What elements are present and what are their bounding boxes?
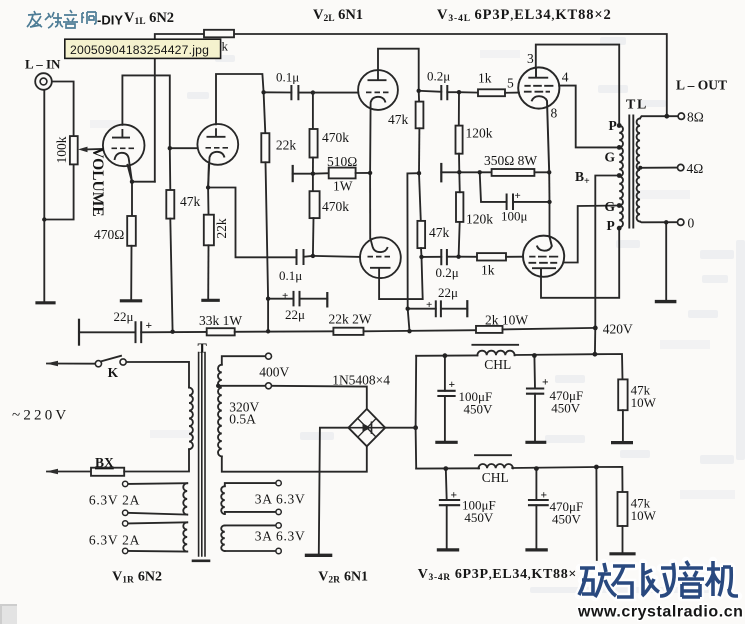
wiper arrow head bbox=[78, 147, 88, 153]
svg-text:CHL: CHL bbox=[482, 470, 509, 485]
svg-text:-DIY: -DIY bbox=[97, 13, 123, 28]
svg-text:0.1μ: 0.1μ bbox=[276, 70, 299, 85]
ground 470ohm bbox=[121, 299, 140, 302]
wire pot bottom to ground line bbox=[44, 164, 73, 219]
wire 0.1u to grid node bbox=[298, 92, 313, 94]
junction node (536.4,468.6) bbox=[534, 466, 539, 471]
wire 22k down to rail bbox=[266, 162, 269, 331]
capacitor 470uF lower plates bbox=[529, 500, 548, 505]
resistor 47k lower driver load bbox=[417, 221, 425, 248]
junction node (263.6,92.3) bbox=[261, 90, 265, 94]
stub bar 510 bbox=[292, 166, 294, 181]
svg-text:+: + bbox=[515, 190, 521, 202]
wire 420V down to filter bbox=[594, 328, 596, 354]
svg-text:450V: 450V bbox=[464, 402, 494, 417]
stub bar bias line bbox=[440, 164, 442, 181]
svg-text:47k: 47k bbox=[388, 112, 409, 127]
svg-text:www.crystalradio.cn: www.crystalradio.cn bbox=[577, 604, 743, 621]
junction node (534.4,355.5) bbox=[532, 353, 537, 358]
terminal 8ohm bbox=[678, 113, 684, 119]
svg-text:1N5408×4: 1N5408×4 bbox=[332, 373, 390, 388]
filament winding R1 bbox=[221, 486, 225, 514]
wire V2L grid chain vertical bbox=[312, 93, 314, 129]
scan artifact blue ghost patches bbox=[187, 37, 745, 593]
svg-text:470k: 470k bbox=[322, 130, 349, 145]
svg-text:0.2μ: 0.2μ bbox=[436, 265, 459, 280]
wire wiper to V1L grid bbox=[87, 148, 104, 151]
svg-text:+: + bbox=[449, 379, 456, 391]
wire 100u to cathode line bbox=[513, 201, 550, 203]
ground bridge minus bbox=[307, 554, 331, 557]
wire to 0.1u cap bbox=[264, 91, 292, 93]
svg-text:3: 3 bbox=[527, 51, 534, 66]
wire 120k upper to bias line bbox=[458, 154, 460, 173]
wire bridge minus to ground bbox=[319, 428, 349, 554]
stub bar rail left bbox=[78, 320, 80, 345]
svg-text:420V: 420V bbox=[603, 322, 633, 337]
svg-text:450V: 450V bbox=[552, 512, 582, 527]
wire cathode to feedback bbox=[132, 181, 155, 183]
filament R2 leads bbox=[225, 525, 276, 551]
svg-text:20050904183254427.jpg: 20050904183254427.jpg bbox=[70, 43, 209, 57]
core bottom bar bbox=[193, 559, 209, 562]
junction node (619.2,147.4) bbox=[617, 145, 622, 150]
svg-text:470k: 470k bbox=[322, 199, 349, 214]
filament R1 leads bbox=[225, 483, 276, 514]
switch K contact left bbox=[95, 361, 101, 367]
terminal 0 bbox=[678, 219, 684, 225]
svg-text:6.3V 2A: 6.3V 2A bbox=[89, 493, 140, 508]
ground 0 terminal bbox=[657, 300, 675, 303]
wire V1L-1 grid node to V1L-2 grid bbox=[170, 147, 198, 149]
choke CHL lower core bbox=[475, 454, 511, 456]
tooltip box 20050904183254427.jpg bbox=[65, 39, 221, 58]
wire 120k lower to bias line bbox=[458, 172, 461, 192]
resistor 47k 10W lower bbox=[618, 492, 628, 526]
svg-text:V2R6N1: V2R6N1 bbox=[318, 570, 368, 586]
wire secondary top to 8ohm bbox=[640, 116, 678, 118]
svg-text:k: k bbox=[222, 39, 229, 54]
wire V3L screen to TL G upper bbox=[559, 86, 619, 148]
resistor 470k upper bbox=[310, 129, 318, 158]
svg-text:+: + bbox=[541, 490, 548, 502]
wire mains to switch K bbox=[47, 363, 95, 365]
junction dot 320V tap bbox=[216, 384, 220, 388]
junction node (459,92.2) bbox=[457, 90, 461, 94]
tube V4L output (inverted) bbox=[523, 236, 564, 277]
svg-text:L: L bbox=[637, 98, 646, 113]
wire V3L plate to TL P top bbox=[536, 45, 619, 126]
junction node (44.3,219.5) bbox=[42, 217, 46, 221]
wire 0.2u to 1k lower bbox=[447, 256, 477, 258]
junction node (421.5,256.9) bbox=[419, 255, 423, 259]
wire 470uF lower lead bbox=[535, 469, 537, 500]
svg-text:2k 10W: 2k 10W bbox=[485, 313, 528, 328]
wire 47k lower driver lead bbox=[419, 173, 421, 221]
tube V2L-2 triode (inverted) bbox=[360, 237, 401, 278]
choke CHL lower winding bbox=[479, 464, 513, 468]
wire 470uF upper to bar bbox=[534, 394, 536, 442]
wire 510 to cathode node bbox=[356, 172, 371, 174]
junction node (172.6,331.7) bbox=[170, 330, 174, 334]
svg-text:CHL: CHL bbox=[484, 357, 511, 372]
switch K contact right bbox=[120, 359, 126, 365]
TL secondary winding bbox=[637, 118, 640, 221]
svg-text:+: + bbox=[426, 299, 432, 311]
wire 47k to B+ rail bbox=[170, 219, 172, 332]
svg-text:470Ω: 470Ω bbox=[94, 227, 124, 242]
wire 47k upper to mid node bbox=[418, 128, 420, 173]
svg-text:22μ: 22μ bbox=[114, 309, 134, 324]
resistor 22k 2W bbox=[333, 328, 363, 335]
svg-text:L – IN: L – IN bbox=[25, 57, 61, 72]
svg-text:0.2μ: 0.2μ bbox=[427, 69, 450, 84]
junction node (459.3,172.2) bbox=[457, 170, 461, 174]
wire 2k10W to 420V node bbox=[503, 328, 596, 330]
arrow mains top bbox=[46, 361, 58, 367]
junction node (619.2,205.5) bbox=[617, 203, 622, 208]
ground 47k10W lower bbox=[611, 552, 634, 555]
svg-text:8: 8 bbox=[551, 106, 558, 121]
wire 120k upper lead bbox=[458, 92, 460, 125]
resistor 510ohm 1W bbox=[329, 168, 356, 179]
svg-text:T: T bbox=[198, 342, 208, 357]
capacitor 0.2u lower plates bbox=[441, 250, 447, 264]
svg-text:47k: 47k bbox=[180, 194, 201, 209]
svg-text:V1R6N2: V1R6N2 bbox=[112, 570, 162, 586]
resistor 1k lower bbox=[477, 253, 506, 260]
T primary winding bbox=[189, 388, 193, 450]
wire 22u to stub bbox=[300, 298, 328, 300]
switch K lever bbox=[101, 356, 122, 362]
junction node (619.2,125.5) bbox=[617, 123, 622, 128]
choke CHL upper winding bbox=[477, 351, 514, 356]
wire 100uF upper lead bbox=[444, 356, 446, 391]
wire feedback top (8ohm to V1L cathode) bbox=[155, 34, 667, 182]
svg-text:1W: 1W bbox=[333, 179, 353, 194]
TL primary winding bbox=[619, 126, 623, 228]
resistor feedback (in top wire) bbox=[204, 30, 234, 38]
wire V4L screen to TL G lower bbox=[564, 206, 619, 263]
junction node (409.5,331.2) bbox=[407, 329, 411, 333]
wire 47k top lead bbox=[169, 148, 172, 190]
wire cathode to lower 0.1u bbox=[208, 188, 296, 258]
wire 100uF lower to bar bbox=[446, 505, 448, 549]
svg-text:10W: 10W bbox=[631, 395, 657, 410]
svg-text:+: + bbox=[451, 490, 458, 502]
svg-text:VOLUME: VOLUME bbox=[89, 147, 106, 216]
choke CHL upper core bbox=[472, 344, 518, 346]
junction node (169.8,148.2) bbox=[168, 146, 172, 150]
svg-text:3A 6.3V: 3A 6.3V bbox=[255, 529, 306, 544]
junction node (268.1,298.7) bbox=[266, 297, 270, 301]
wire HT top to 400V terminal bbox=[222, 356, 266, 365]
capacitor 22u (V1L-2 decouple) plates bbox=[294, 292, 300, 306]
resistor 350ohm 8W bbox=[492, 169, 535, 176]
filament L1 leads bbox=[128, 483, 187, 514]
svg-text:22μ: 22μ bbox=[438, 285, 458, 300]
capacitor 100u plates bbox=[507, 195, 513, 210]
wire 320V terminal to bridge bbox=[271, 386, 366, 409]
resistor 47k upper driver load bbox=[416, 102, 424, 129]
wire 120k lower lead bbox=[459, 222, 460, 257]
wire V2L-2 cathode up bbox=[369, 173, 371, 238]
svg-text:47k: 47k bbox=[429, 225, 450, 240]
svg-text:P: P bbox=[607, 218, 615, 233]
resistor 22k (V1L-2 plate load) bbox=[261, 133, 269, 162]
filament L2 leads bbox=[128, 522, 187, 551]
capacitor 22u rail plates bbox=[136, 322, 142, 342]
wire 470uF lower to bar bbox=[535, 505, 537, 549]
wire driver B+ node chain bbox=[418, 91, 420, 102]
svg-text:22k: 22k bbox=[276, 138, 297, 153]
svg-text:4Ω: 4Ω bbox=[687, 161, 704, 176]
filament winding L2 bbox=[183, 522, 187, 551]
svg-text:G: G bbox=[605, 199, 616, 214]
ground input bbox=[37, 301, 54, 304]
wire V2L-2 plate down-over bbox=[379, 257, 423, 299]
junction node (619.2,175.5) bbox=[617, 173, 622, 178]
svg-text:22k 2W: 22k 2W bbox=[329, 312, 372, 327]
wire upper filter line bbox=[416, 354, 622, 379]
wire 0.1u lower to grid node bbox=[304, 255, 313, 258]
filament winding R2 bbox=[221, 525, 225, 551]
svg-text:G: G bbox=[605, 150, 616, 165]
wire 22u to 33k bbox=[141, 331, 207, 333]
capacitor 0.2u upper plates bbox=[441, 86, 447, 99]
wire V1L-1 plate up-over bbox=[122, 75, 169, 148]
watermark 矿石收音机 (CJK strokes with white halo) bbox=[579, 561, 738, 597]
junction node (619.2,228.2) bbox=[617, 226, 622, 231]
wire V4L plate to TL P bottom bbox=[541, 228, 619, 298]
tube V2L-1 triode bbox=[358, 70, 398, 173]
wire secondary mid tap to 4ohm bbox=[641, 167, 678, 169]
terminal 4ohm bbox=[678, 164, 684, 170]
junction node (132,181.7) bbox=[130, 180, 134, 184]
wire HT bottom to bridge bbox=[222, 446, 367, 472]
wire 100u branch bbox=[480, 172, 507, 202]
wire 1k lower to V4L grid bbox=[506, 256, 523, 258]
svg-text:3A 6.3V: 3A 6.3V bbox=[255, 492, 306, 507]
terminal filament L2 top bbox=[123, 521, 128, 526]
ground 47k10W upper bbox=[613, 441, 632, 444]
svg-text:1k: 1k bbox=[481, 263, 495, 278]
wire V2L-1 plate up-over bbox=[378, 49, 419, 91]
terminal filament R1 top bbox=[276, 480, 281, 485]
transformer T core bbox=[199, 353, 205, 557]
wire to 0.2u lower bbox=[422, 256, 442, 258]
junction node (594.9,354.2) bbox=[593, 352, 598, 357]
svg-text:V1L6N2: V1L6N2 bbox=[124, 10, 174, 27]
wire 0 to ground bbox=[665, 222, 667, 300]
terminal 400V bbox=[266, 353, 272, 359]
svg-text:510Ω: 510Ω bbox=[327, 154, 357, 169]
tube V1L-2 triode bbox=[197, 124, 238, 188]
svg-text:V2L6N1: V2L6N1 bbox=[313, 7, 363, 24]
wire secondary bottom to 0 bbox=[640, 221, 678, 224]
junction node (312.9,255.9) bbox=[311, 254, 315, 258]
wire 33k to 22k2W bbox=[235, 330, 334, 333]
wire V4L cathode up bbox=[549, 202, 551, 237]
svg-text:6.3V 2A: 6.3V 2A bbox=[89, 533, 140, 548]
wire 470uF upper lead bbox=[533, 356, 536, 389]
svg-text:120k: 120k bbox=[466, 126, 493, 141]
junction node (479.7,172.3) bbox=[478, 170, 482, 174]
bar 470uF upper bbox=[527, 441, 545, 444]
svg-text:~220V: ~220V bbox=[12, 408, 69, 424]
junction node (596.4,467) bbox=[594, 465, 599, 470]
resistor 47k (V1L-1 plate load) bbox=[166, 190, 174, 219]
wire 47k10W upper to ground bbox=[622, 410, 624, 441]
junction node (445.8,468.6) bbox=[443, 466, 448, 471]
wire 470k lower to lower grid node bbox=[312, 218, 315, 256]
bar 100uF lower bbox=[438, 548, 457, 551]
junction node (415.6,427.7) bbox=[413, 425, 418, 430]
corner gray box bbox=[0, 604, 17, 624]
svg-text:T: T bbox=[626, 98, 636, 113]
junction node (666.2,222.3) bbox=[664, 220, 668, 224]
wire 22u to stub bbox=[441, 308, 467, 310]
capacitor 22u driver plates bbox=[436, 301, 441, 316]
wire V1L-2 plate up-over bbox=[216, 74, 264, 124]
bridge rectifier 1N5408x4 bbox=[348, 409, 385, 446]
junction node (549.2,172.3) bbox=[547, 170, 551, 174]
T HT secondary winding bbox=[218, 365, 222, 457]
terminal 320V bbox=[266, 383, 272, 389]
svg-text:P: P bbox=[609, 118, 617, 133]
wire 320V tap to terminal bbox=[218, 385, 266, 387]
resistor 47k 10W upper bbox=[618, 379, 627, 410]
bar 100uF upper bbox=[437, 441, 456, 444]
wire 470k lower chain bbox=[312, 174, 314, 192]
wire mains to fuse BX bbox=[47, 471, 91, 473]
resistor 2k 10W bbox=[476, 326, 503, 333]
wire 22k plate load lead bbox=[264, 92, 266, 133]
svg-text:BX: BX bbox=[95, 455, 114, 470]
svg-text:450V: 450V bbox=[551, 401, 581, 416]
capacitor 100uF upper plates bbox=[438, 391, 454, 396]
svg-text:+: + bbox=[282, 290, 288, 302]
svg-text:K: K bbox=[108, 365, 119, 380]
svg-text:1k: 1k bbox=[478, 71, 492, 86]
junction node (312.9,92.6) bbox=[311, 90, 315, 94]
wire 22k2W to 2k10W bbox=[364, 330, 477, 331]
wire 22u driver branch bbox=[408, 308, 436, 310]
junction node (407.7,308.7) bbox=[406, 307, 410, 311]
wire input ground line bbox=[43, 91, 45, 302]
input jack L-IN bbox=[35, 73, 52, 90]
wire lower filter line bbox=[416, 467, 622, 492]
svg-text:100k: 100k bbox=[54, 136, 69, 163]
svg-text:120k: 120k bbox=[466, 212, 493, 227]
svg-text:0.1μ: 0.1μ bbox=[279, 268, 302, 283]
wire V1L-2 cathode bbox=[207, 165, 210, 215]
junction node (666.8,116.2) bbox=[664, 114, 669, 119]
resistor 120k lower bbox=[456, 192, 463, 222]
wire 22k cathode to ground bbox=[207, 245, 209, 299]
capacitor 100uF lower plates bbox=[440, 500, 459, 505]
svg-text:+: + bbox=[146, 320, 153, 332]
TL core bbox=[629, 116, 633, 228]
wire 470ohm to ground bbox=[130, 246, 132, 300]
wire 100uF lower lead bbox=[445, 469, 448, 500]
filament winding L1 bbox=[183, 483, 187, 514]
svg-text:350Ω 8W: 350Ω 8W bbox=[484, 153, 537, 168]
tube V3L output bbox=[518, 67, 559, 172]
capacitor 0.1u lower plates bbox=[297, 250, 304, 264]
terminal filament L1 top bbox=[123, 481, 128, 486]
svg-text:5: 5 bbox=[507, 76, 514, 91]
junction node (370.1,172.9) bbox=[368, 171, 372, 175]
title 发烧音响-DIY (teal CJK approximated strokes) bbox=[27, 10, 96, 28]
ground 22k cathode bbox=[203, 299, 218, 302]
svg-text:22k: 22k bbox=[214, 218, 229, 239]
junction node (418.7,90.8) bbox=[417, 89, 421, 93]
wire 47k lower to plate node bbox=[420, 248, 423, 257]
wire switch to primary bbox=[126, 362, 189, 388]
capacitor 0.1u upper plates bbox=[291, 86, 298, 99]
svg-text:33k 1W: 33k 1W bbox=[199, 313, 242, 328]
wire 350ohm to cathode line bbox=[534, 171, 549, 173]
resistor 33k 1W bbox=[207, 328, 235, 335]
svg-text:0: 0 bbox=[688, 216, 695, 231]
junction node (640.3,167.8) bbox=[638, 166, 642, 170]
wire 100uF upper to bar bbox=[444, 396, 446, 441]
wire to 0.2u upper bbox=[419, 91, 442, 92]
junction node (312.9,173.7) bbox=[311, 172, 315, 176]
svg-text:+: + bbox=[542, 377, 549, 389]
fuse BX bbox=[91, 468, 124, 476]
junction node (419,173.2) bbox=[417, 171, 421, 175]
capacitor 470uF upper plates bbox=[527, 389, 543, 394]
wire rail to 22u bbox=[79, 331, 136, 333]
wire bridge plus vertical bbox=[415, 356, 418, 469]
terminal filament R2 top bbox=[276, 523, 281, 528]
resistor 470k lower bbox=[310, 191, 320, 218]
junction node (595.3,327.9) bbox=[593, 326, 598, 331]
wire 1k to V3L grid bbox=[505, 92, 519, 94]
junction node (549.5,201.9) bbox=[547, 200, 551, 204]
junction node (458.6,256.7) bbox=[456, 255, 460, 259]
wire stub to 510 node bbox=[293, 172, 329, 175]
resistor 470ohm bbox=[127, 216, 136, 246]
resistor 22k (V1L-2 cathode) bbox=[204, 215, 214, 246]
svg-text:0.5A: 0.5A bbox=[229, 412, 256, 427]
arrow mains bottom bbox=[46, 469, 58, 475]
junction node (444.9,355.7) bbox=[443, 353, 448, 358]
svg-text:L – OUT: L – OUT bbox=[676, 78, 727, 93]
wire V2L-1 grid lead bbox=[313, 92, 358, 94]
tube V1L-1 triode bbox=[103, 125, 145, 182]
wire 47k10W lower to ground bbox=[622, 526, 624, 552]
wire 0.2u to 1k upper bbox=[447, 91, 478, 93]
wire fuse to primary bottom bbox=[124, 449, 189, 471]
svg-text:4: 4 bbox=[562, 70, 569, 85]
wire TL B+ tap to 420V bbox=[595, 176, 619, 328]
svg-text:10W: 10W bbox=[631, 508, 657, 523]
wire bias line 350ohm bbox=[441, 171, 491, 173]
potentiometer 100k bbox=[70, 136, 78, 164]
resistor 1k upper bbox=[478, 89, 505, 96]
svg-text:22μ: 22μ bbox=[285, 307, 305, 322]
svg-text:100μ: 100μ bbox=[501, 209, 528, 224]
bar 470uF lower bbox=[527, 548, 546, 551]
resistor 120k upper bbox=[456, 126, 463, 154]
wire right channel feed down bbox=[595, 467, 597, 560]
wire V1L-1 cathode bbox=[128, 165, 133, 216]
wire grid node to V2L-2 grid bbox=[313, 256, 360, 257]
svg-text:8Ω: 8Ω bbox=[687, 110, 704, 125]
